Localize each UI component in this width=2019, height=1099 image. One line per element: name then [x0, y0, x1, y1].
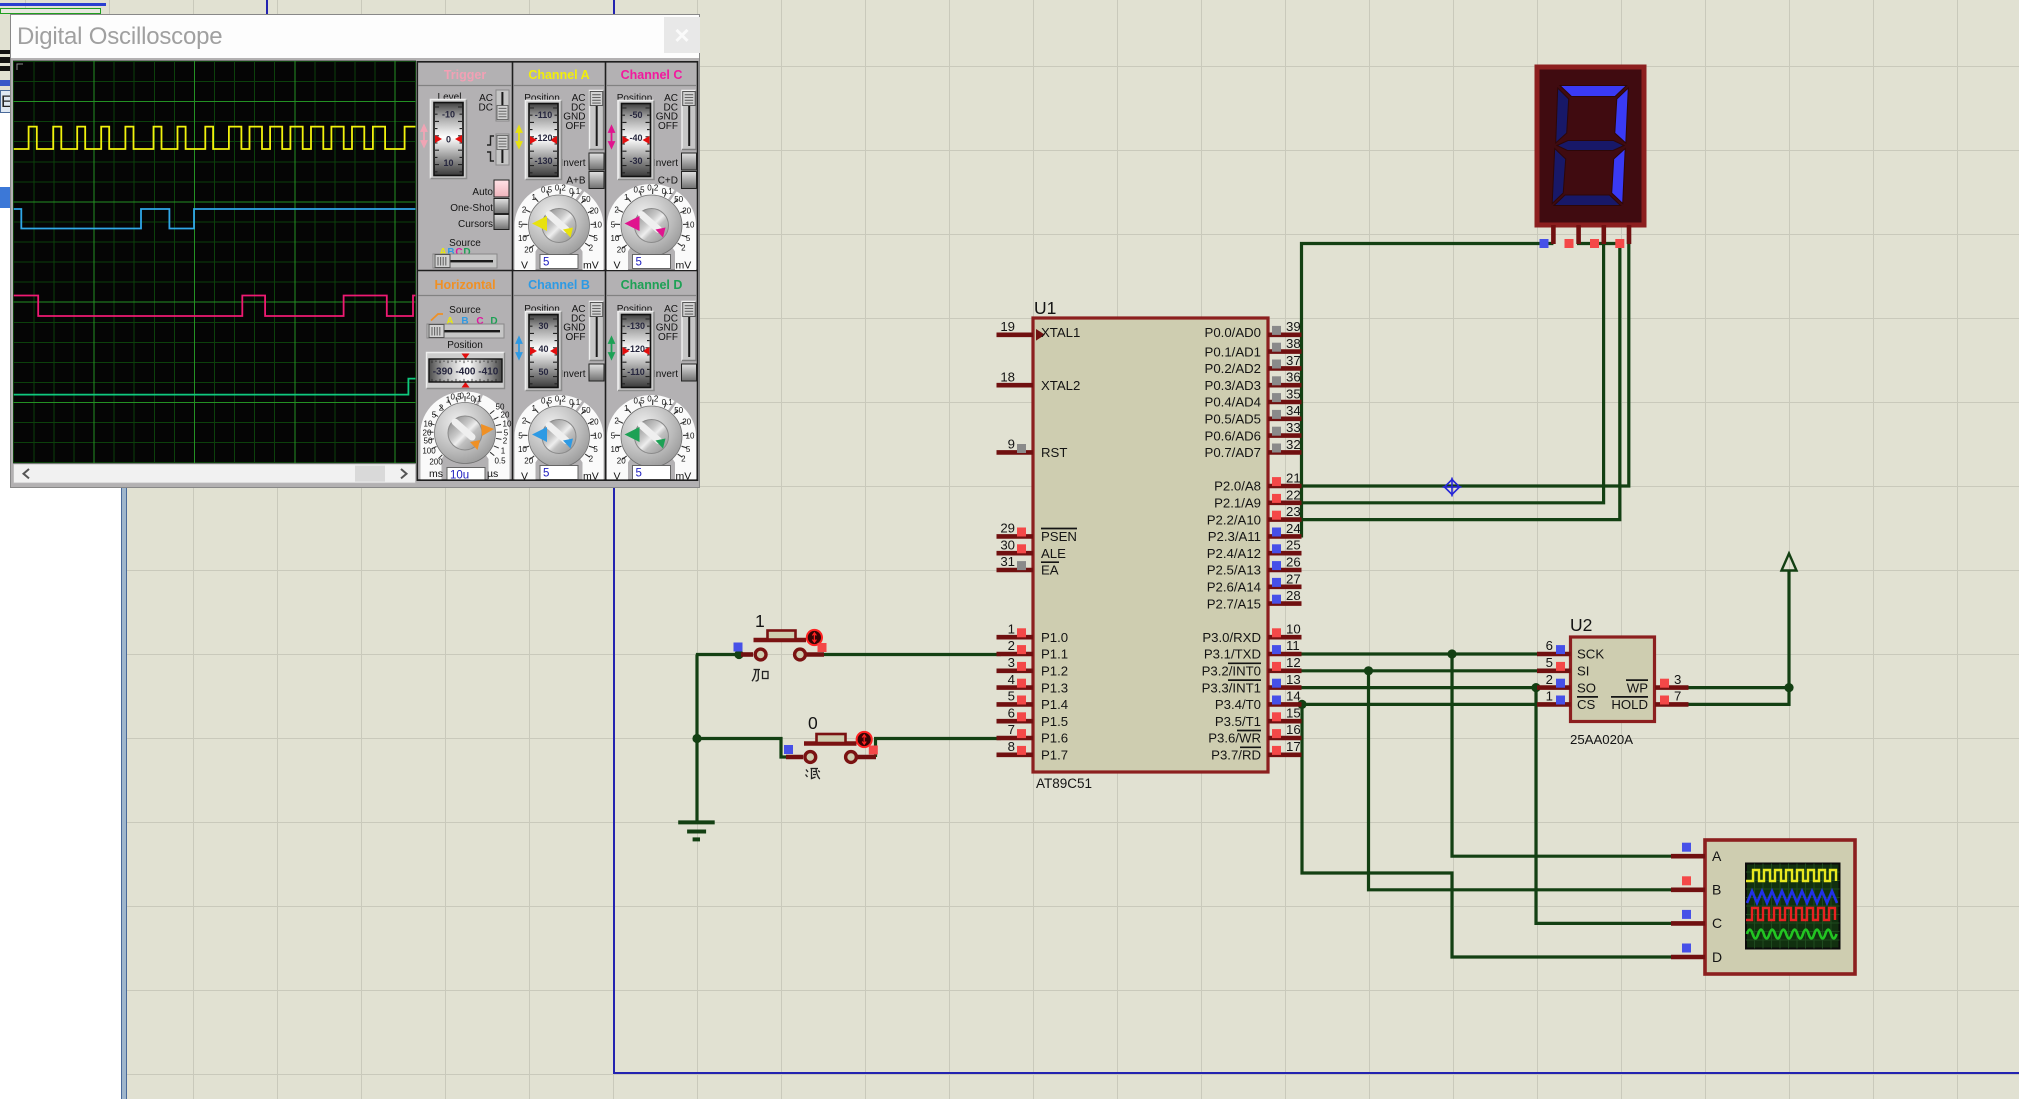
- wire probe C drop: [1536, 688, 1705, 924]
- svg-text:Channel B: Channel B: [528, 278, 590, 292]
- svg-text:C+D: C+D: [658, 176, 678, 187]
- svg-text:P3.0/RXD: P3.0/RXD: [1202, 630, 1261, 645]
- svg-text:29: 29: [1000, 521, 1015, 536]
- U1 right pin numbers: [1286, 319, 1301, 754]
- svg-text:-50: -50: [629, 110, 642, 120]
- svg-text:26: 26: [1286, 555, 1301, 570]
- svg-text:3: 3: [1674, 672, 1681, 687]
- svg-text:13: 13: [1286, 672, 1301, 687]
- svg-text:D: D: [1712, 949, 1722, 965]
- power VCC arrow: [1782, 554, 1797, 571]
- svg-text:P3.2/INT0: P3.2/INT0: [1202, 664, 1261, 679]
- U1 XTAL1 clock mark: [1036, 329, 1045, 341]
- junction P3.4/D: [1297, 700, 1306, 709]
- svg-text:22: 22: [1286, 488, 1301, 503]
- svg-text:P2.3/A11: P2.3/A11: [1208, 529, 1261, 544]
- svg-text:5: 5: [636, 257, 642, 269]
- svg-text:P0.7/AD7: P0.7/AD7: [1205, 445, 1261, 460]
- svg-text:3: 3: [1008, 655, 1015, 670]
- svg-text:OFF: OFF: [658, 332, 678, 343]
- svg-text:27: 27: [1286, 572, 1301, 587]
- svg-text:U1: U1: [1034, 298, 1056, 318]
- svg-text:P1.6: P1.6: [1041, 731, 1068, 746]
- push button "0" (subtract): [784, 713, 878, 779]
- wire P3.1 to U2 SCK: [1300, 652, 1538, 655]
- wire P2.0 to 7seg pin4: [1300, 244, 1629, 486]
- svg-text:OFF: OFF: [658, 121, 678, 132]
- svg-text:P1.2: P1.2: [1041, 664, 1068, 679]
- svg-text:2: 2: [1008, 638, 1015, 653]
- svg-text:30: 30: [1000, 538, 1015, 553]
- svg-text:9: 9: [1008, 437, 1015, 452]
- svg-text:SI: SI: [1577, 664, 1589, 679]
- svg-text:24: 24: [1286, 521, 1301, 536]
- wire P3.2 to U2 SI: [1300, 669, 1538, 672]
- svg-text:32: 32: [1286, 437, 1301, 452]
- svg-text:Horizontal: Horizontal: [434, 278, 495, 292]
- svg-text:Channel D: Channel D: [621, 278, 683, 292]
- U1 left pin numbers: [1000, 319, 1015, 754]
- wire P3.3 to U2 SO: [1300, 686, 1538, 689]
- svg-text:-40: -40: [629, 133, 642, 143]
- scrollbar: [14, 464, 416, 483]
- svg-text:-130: -130: [534, 156, 552, 166]
- U2 body: [1571, 637, 1655, 722]
- U2 pin names: [1577, 647, 1648, 712]
- svg-text:P3.7/RD: P3.7/RD: [1211, 748, 1261, 763]
- svg-text:-110: -110: [535, 110, 553, 120]
- 7seg segment g (unlit): [1557, 141, 1624, 151]
- wire U2 HOLD riser: [1687, 688, 1789, 705]
- svg-text:P3.6/WR: P3.6/WR: [1208, 731, 1261, 746]
- svg-text:P1.7: P1.7: [1041, 748, 1068, 763]
- svg-text:P0.4/AD4: P0.4/AD4: [1205, 395, 1261, 410]
- svg-text:P3.5/T1: P3.5/T1: [1215, 714, 1261, 729]
- U2 left stubs: [1537, 654, 1571, 704]
- sheet border vertical: [613, 0, 615, 1073]
- svg-text:30: 30: [538, 321, 548, 331]
- svg-text:P1.5: P1.5: [1041, 714, 1068, 729]
- svg-text:A: A: [1712, 848, 1722, 864]
- svg-text:WP: WP: [1627, 680, 1648, 695]
- wire U2 WP to VCC: [1687, 570, 1789, 688]
- U2 pin numbers: [1546, 638, 1682, 704]
- svg-text:Invert: Invert: [560, 158, 585, 169]
- svg-text:2: 2: [1546, 672, 1553, 687]
- wire P1.1 net: btn1 to MCU pin2: [696, 244, 1789, 958]
- U1 left pin stubs: [997, 335, 1034, 755]
- svg-text:36: 36: [1286, 370, 1301, 385]
- svg-text:P1.3: P1.3: [1041, 680, 1068, 695]
- 7seg segment d (unlit): [1554, 195, 1621, 206]
- svg-text:XTAL1: XTAL1: [1041, 325, 1080, 340]
- junction P3.2/B: [1364, 666, 1373, 675]
- svg-text:5: 5: [543, 468, 549, 480]
- top-left window fragments behind scope: [0, 3, 106, 6]
- svg-text:-130: -130: [627, 321, 645, 331]
- svg-text:1: 1: [1546, 689, 1553, 704]
- probe pin labels: [1712, 848, 1722, 965]
- U2 state squares: [1556, 645, 1669, 704]
- probe mini screen: [1746, 864, 1840, 949]
- svg-text:Invert: Invert: [653, 369, 678, 380]
- svg-text:21: 21: [1286, 471, 1301, 486]
- svg-text:40: 40: [538, 344, 548, 354]
- 7-segment display body: [1537, 67, 1644, 225]
- probe pin stubs: [1671, 856, 1705, 957]
- svg-text:8: 8: [1008, 739, 1015, 754]
- svg-text:-10: -10: [442, 110, 455, 120]
- svg-text:33: 33: [1286, 420, 1301, 435]
- svg-text:P0.6/AD6: P0.6/AD6: [1205, 428, 1261, 443]
- svg-text:35: 35: [1286, 387, 1301, 402]
- svg-text:-110: -110: [627, 367, 645, 377]
- svg-text:19: 19: [1000, 319, 1015, 334]
- wire P2.2 to 7seg pin2: [1300, 244, 1620, 520]
- svg-text:Source: Source: [449, 305, 481, 316]
- push button "1" (add): [734, 611, 827, 681]
- svg-text:1: 1: [755, 611, 765, 631]
- svg-text:-390 -400 -410: -390 -400 -410: [433, 367, 499, 378]
- svg-text:P0.3/AD3: P0.3/AD3: [1205, 378, 1261, 393]
- svg-text:DC: DC: [479, 103, 493, 114]
- svg-text:P2.6/A14: P2.6/A14: [1207, 580, 1261, 595]
- svg-text:RST: RST: [1041, 445, 1067, 460]
- svg-text:50: 50: [538, 367, 548, 377]
- wire probe A drop: [1452, 654, 1705, 856]
- svg-text:10: 10: [1286, 622, 1301, 637]
- panel headers: [434, 68, 682, 292]
- probe state squares: [1682, 843, 1691, 953]
- svg-text:37: 37: [1286, 353, 1301, 368]
- left object-selector panel (white): [0, 487, 121, 1099]
- U1 pin state squares: [1017, 326, 1281, 755]
- svg-text:CS: CS: [1577, 697, 1596, 712]
- left strip fragments: [0, 50, 11, 54]
- junction WP/HOLD: [1784, 683, 1793, 692]
- svg-text:5: 5: [636, 468, 642, 480]
- ground: [678, 822, 715, 839]
- svg-text:A+B: A+B: [566, 176, 586, 187]
- U1 right pin stubs: [1268, 335, 1302, 755]
- controls background: [417, 61, 698, 481]
- svg-text:P2.2/A10: P2.2/A10: [1207, 512, 1261, 527]
- svg-text:P2.0/A8: P2.0/A8: [1214, 479, 1261, 494]
- svg-text:P2.4/A12: P2.4/A12: [1207, 546, 1261, 561]
- 7seg pin stubs: [1553, 225, 1629, 244]
- svg-text:0: 0: [808, 713, 818, 733]
- 7seg segment c (lit): [1612, 149, 1626, 204]
- junction ground node: [692, 734, 701, 743]
- 7seg segment a (lit): [1560, 86, 1627, 97]
- svg-text:SO: SO: [1577, 680, 1596, 695]
- U1 left pin names: [1041, 325, 1080, 763]
- wire probe B drop: [1369, 671, 1706, 890]
- svg-text:25: 25: [1286, 538, 1301, 553]
- svg-text:Channel A: Channel A: [528, 68, 589, 82]
- svg-text:-120: -120: [627, 344, 645, 354]
- svg-text:1: 1: [1008, 622, 1015, 637]
- junction btn1 wire: [734, 650, 743, 659]
- probe scope component body: [1705, 840, 1855, 974]
- svg-text:18: 18: [1000, 370, 1015, 385]
- oscilloscope screen: [14, 61, 416, 463]
- wire ground stem: [695, 739, 698, 821]
- svg-text:B: B: [1712, 882, 1721, 898]
- svg-text:Invert: Invert: [653, 158, 678, 169]
- svg-text:P2.5/A13: P2.5/A13: [1207, 563, 1261, 578]
- svg-text:HOLD: HOLD: [1611, 697, 1648, 712]
- svg-text:31: 31: [1000, 554, 1015, 569]
- svg-text:P0.0/AD0: P0.0/AD0: [1205, 325, 1261, 340]
- svg-text:-120: -120: [534, 133, 552, 143]
- junction P3.3/C: [1531, 683, 1540, 692]
- svg-text:Channel C: Channel C: [621, 68, 683, 82]
- wire P3.4 to U2 CS: [1300, 703, 1538, 706]
- svg-text:28: 28: [1286, 588, 1301, 603]
- svg-text:Auto: Auto: [472, 187, 493, 198]
- svg-text:5: 5: [1008, 689, 1015, 704]
- svg-text:One-Shot: One-Shot: [450, 203, 493, 214]
- svg-text:P2.1/A9: P2.1/A9: [1214, 496, 1261, 511]
- 7seg segment f (unlit): [1556, 88, 1569, 143]
- svg-text:EA: EA: [1041, 563, 1059, 578]
- wire probe D drop: [1302, 704, 1705, 957]
- svg-text:P3.4/T0: P3.4/T0: [1215, 697, 1261, 712]
- svg-text:Position: Position: [447, 340, 483, 351]
- svg-text:12: 12: [1286, 655, 1301, 670]
- U2 right stubs: [1655, 688, 1689, 705]
- svg-text:SCK: SCK: [1577, 647, 1604, 662]
- svg-text:P1.0: P1.0: [1041, 630, 1068, 645]
- svg-text:P0.1/AD1: P0.1/AD1: [1205, 344, 1261, 359]
- svg-text:14: 14: [1286, 689, 1301, 704]
- wire P2.1 to 7seg pin3: [1300, 244, 1604, 503]
- svg-text:11: 11: [1286, 638, 1300, 653]
- svg-text:P0.5/AD5: P0.5/AD5: [1205, 412, 1261, 427]
- svg-text:5: 5: [1546, 655, 1553, 670]
- 7seg wire state squares: [1540, 239, 1625, 248]
- svg-text:Invert: Invert: [560, 369, 585, 380]
- svg-text:0: 0: [446, 135, 451, 145]
- wire P2.3 to 7seg pin1: [1302, 244, 1554, 538]
- microcontroller U1 AT89C51 body: [1033, 318, 1268, 772]
- svg-text:P1.1: P1.1: [1041, 647, 1068, 662]
- wire P1.6 net: btn0 to MCU pin7: [697, 739, 787, 758]
- junction P3.1/A: [1447, 649, 1456, 658]
- svg-text:P0.2/AD2: P0.2/AD2: [1205, 361, 1261, 376]
- svg-text:7: 7: [1674, 689, 1681, 704]
- svg-text:25AA020A: 25AA020A: [1570, 732, 1633, 747]
- svg-text:Trigger: Trigger: [444, 68, 487, 82]
- svg-text:PSEN: PSEN: [1041, 529, 1077, 544]
- origin marker: [1443, 478, 1462, 497]
- svg-text:6: 6: [1546, 638, 1553, 653]
- svg-text:Cursors: Cursors: [458, 219, 493, 230]
- svg-text:U2: U2: [1570, 615, 1592, 635]
- svg-text:ALE: ALE: [1041, 546, 1066, 561]
- svg-text:6: 6: [1008, 706, 1015, 721]
- svg-text:5: 5: [543, 257, 549, 269]
- svg-text:23: 23: [1286, 504, 1301, 519]
- svg-text:4: 4: [1008, 672, 1015, 687]
- svg-text:OFF: OFF: [566, 121, 586, 132]
- panel splitter double line: [121, 487, 127, 1099]
- svg-text:XTAL2: XTAL2: [1041, 378, 1080, 393]
- svg-text:C: C: [1712, 915, 1722, 931]
- svg-text:P1.4: P1.4: [1041, 697, 1068, 712]
- svg-text:P2.7/A15: P2.7/A15: [1207, 596, 1261, 611]
- svg-text:10: 10: [443, 158, 453, 168]
- svg-text:38: 38: [1286, 336, 1301, 351]
- svg-text:P3.3/INT1: P3.3/INT1: [1202, 680, 1261, 695]
- svg-text:OFF: OFF: [566, 332, 586, 343]
- svg-text:-30: -30: [629, 156, 642, 166]
- svg-text:7: 7: [1008, 722, 1015, 737]
- 7seg segment b (lit): [1615, 88, 1629, 143]
- svg-text:15: 15: [1286, 706, 1301, 721]
- svg-text:34: 34: [1286, 403, 1301, 418]
- svg-text:16: 16: [1286, 722, 1301, 737]
- svg-text:17: 17: [1286, 739, 1301, 754]
- svg-text:AT89C51: AT89C51: [1036, 776, 1092, 791]
- 7seg segment e (unlit): [1552, 149, 1566, 204]
- svg-text:P3.1/TXD: P3.1/TXD: [1204, 647, 1261, 662]
- U1 right pin names: [1202, 325, 1261, 763]
- svg-text:39: 39: [1286, 319, 1301, 334]
- sheet border bottom: [613, 1072, 2019, 1074]
